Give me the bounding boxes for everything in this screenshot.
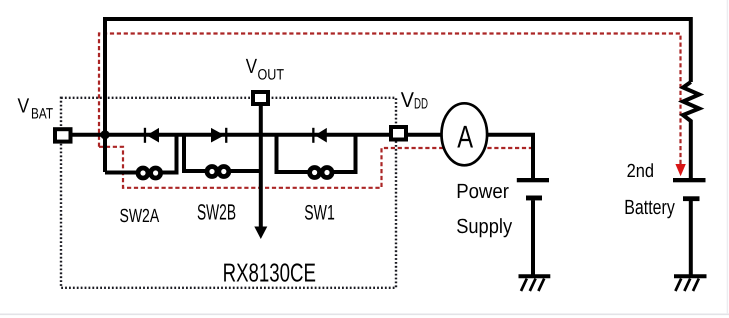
svg-text:V: V xyxy=(401,88,415,112)
svg-text:A: A xyxy=(457,118,473,154)
svg-text:SW2B: SW2B xyxy=(197,200,236,225)
svg-text:2nd: 2nd xyxy=(627,161,654,182)
svg-text:Power: Power xyxy=(456,180,509,203)
svg-text:DD: DD xyxy=(414,96,428,113)
svg-text:SW2A: SW2A xyxy=(120,206,160,227)
svg-text:SW1: SW1 xyxy=(304,201,335,224)
svg-text:BAT: BAT xyxy=(31,105,53,122)
svg-text:Battery: Battery xyxy=(624,196,675,219)
svg-text:V: V xyxy=(246,55,258,78)
svg-text:V: V xyxy=(18,94,30,117)
svg-text:RX8130CE: RX8130CE xyxy=(223,258,316,288)
svg-text:OUT: OUT xyxy=(258,66,285,83)
svg-text:Supply: Supply xyxy=(456,215,513,238)
